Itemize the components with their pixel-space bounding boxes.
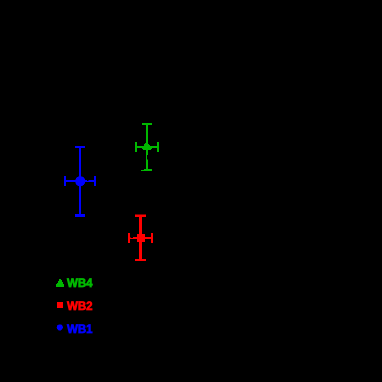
left cap WB4 (135, 142, 137, 152)
data point WB4 green: error bars (135, 123, 159, 171)
wire horizontal error bar line WB1 (64, 180, 96, 182)
top cap WB1 (75, 146, 85, 148)
wire vertical error bar line WB3 (139, 215, 142, 260)
bottom cap WB1 (75, 214, 85, 217)
marker WB4 green triangle (pixel stack) (145, 143, 148, 144)
wire vertical error bar line WB1 (79, 146, 81, 216)
legend entry WB4 (56, 279, 64, 287)
bottom cap WB4 (144, 169, 152, 170)
data point WB1 blue: error bars (64, 146, 96, 217)
top cap WB4 (142, 123, 152, 125)
svg-text:WB2: WB2 (67, 301, 93, 313)
right cap WB4 (157, 142, 159, 152)
wire horizontal error bar line WB4 (135, 146, 159, 148)
marker WB3 red square (137, 234, 145, 242)
wire vertical error bar line WB4 (146, 123, 148, 170)
marker WB1 blue circle (75, 176, 85, 186)
black overlay notch on WB3 horizontal line (131, 237, 134, 238)
bottom cap WB3 (135, 259, 146, 261)
top cap WB3 (135, 215, 146, 217)
black overlay notch on WB4 vertical line (147, 155, 148, 160)
right cap WB3 (151, 233, 153, 243)
left cap WB1 (64, 176, 66, 186)
wire horizontal error bar line WB3 (128, 237, 153, 239)
svg-text:WB1: WB1 (67, 324, 93, 336)
data point WB3 red: error bars (128, 215, 153, 262)
legend marker green triangle (pixel stack) (59, 279, 61, 280)
svg-text:WB4: WB4 (67, 278, 93, 290)
legend marker red square (57, 302, 63, 308)
right cap WB1 (94, 176, 96, 186)
legend marker blue circle (57, 324, 63, 330)
black overlay notch on WB1 horizontal line (87, 180, 89, 181)
left cap WB3 (128, 233, 130, 243)
